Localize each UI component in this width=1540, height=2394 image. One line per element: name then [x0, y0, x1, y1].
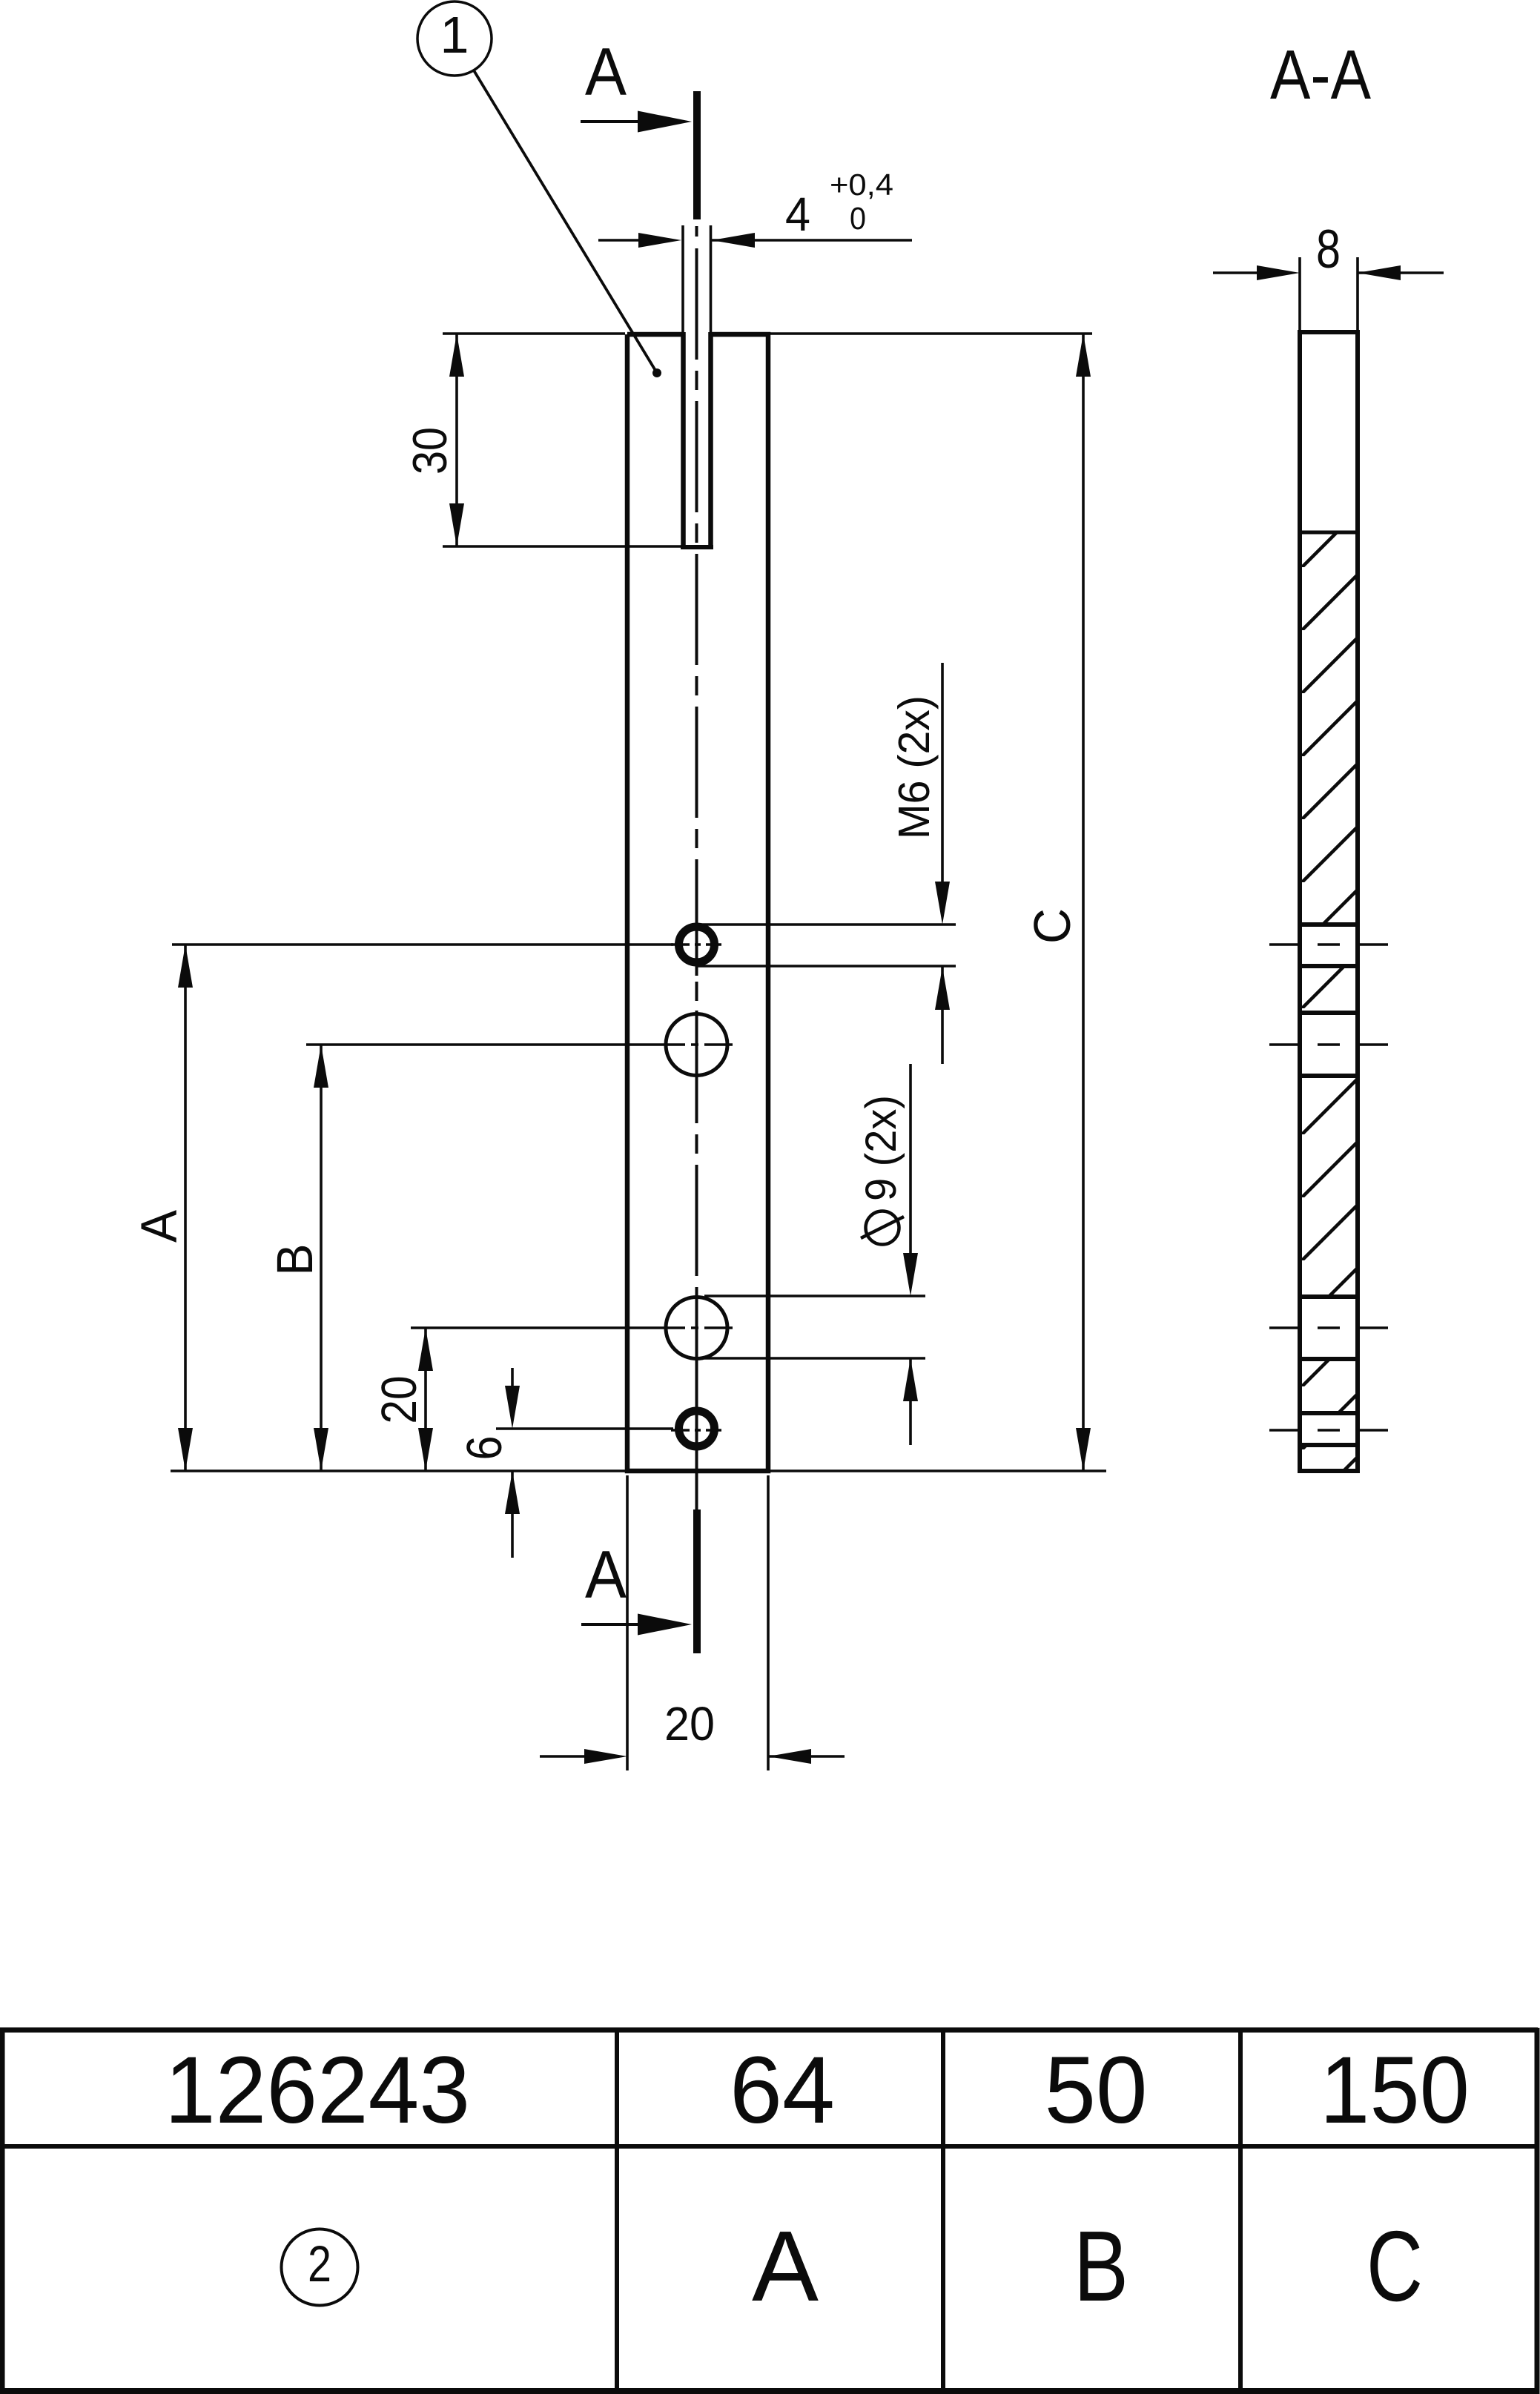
svg-text:2: 2: [308, 2235, 331, 2292]
svg-text:A-A: A-A: [1270, 36, 1371, 113]
svg-text:A: A: [585, 35, 627, 110]
svg-text:C: C: [1366, 2210, 1423, 2322]
svg-text:9 (2x): 9 (2x): [857, 1095, 905, 1201]
svg-text:B: B: [266, 1244, 323, 1276]
svg-text:1: 1: [440, 6, 469, 64]
svg-text:50: 50: [1045, 2037, 1148, 2143]
svg-text:C: C: [1023, 908, 1081, 944]
svg-text:+0,4: +0,4: [830, 168, 893, 202]
svg-text:0: 0: [850, 201, 866, 237]
svg-text:20: 20: [664, 1697, 715, 1750]
svg-text:A: A: [130, 1210, 188, 1243]
svg-text:8: 8: [1316, 219, 1341, 280]
svg-text:A: A: [585, 1538, 627, 1613]
svg-text:150: 150: [1320, 2037, 1470, 2143]
svg-text:30: 30: [403, 427, 457, 474]
svg-text:A: A: [752, 2210, 819, 2322]
svg-text:64: 64: [730, 2037, 835, 2143]
svg-text:20: 20: [371, 1376, 427, 1424]
svg-text:B: B: [1074, 2210, 1128, 2322]
svg-text:M6 (2x): M6 (2x): [890, 695, 939, 839]
svg-text:4: 4: [785, 188, 810, 241]
svg-text:126243: 126243: [165, 2037, 470, 2143]
svg-text:6: 6: [457, 1436, 512, 1461]
